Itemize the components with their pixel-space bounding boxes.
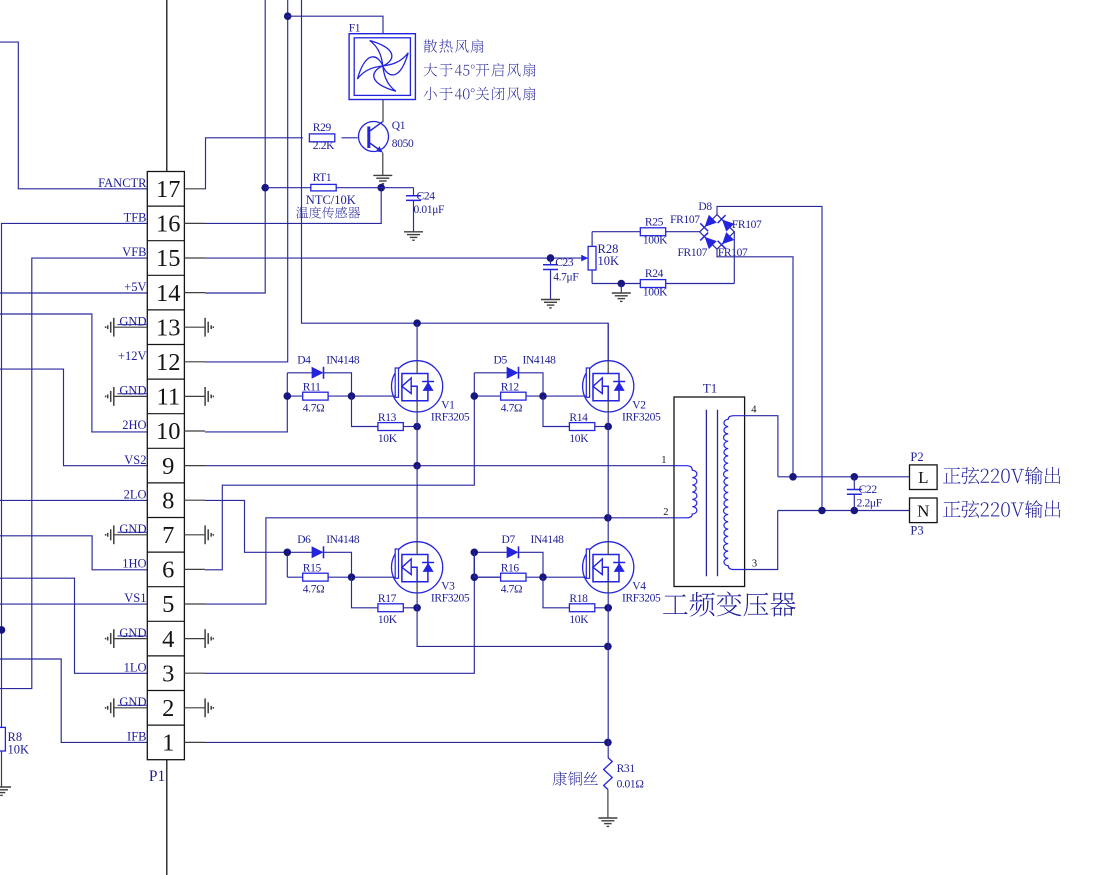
node gate junction D6 — [348, 573, 356, 581]
svg-text:0.01μF: 0.01μF — [414, 204, 445, 216]
svg-text:4.7Ω: 4.7Ω — [501, 402, 523, 414]
wire +5V left — [0, 292, 147, 294]
wire R28 top to D8 left — [592, 231, 700, 233]
ground bar symbol left pin 7 — [114, 534, 147, 536]
svg-text:GND: GND — [119, 384, 146, 398]
svg-text:4: 4 — [751, 405, 757, 416]
ground bar symbol left pin 2 — [114, 707, 147, 709]
svg-text:13: 13 — [156, 314, 181, 341]
wire D7 gate junction to MOSFET gate — [543, 576, 586, 578]
pin divider above pin 12 — [147, 344, 184, 346]
wire T1 pin3 to N row — [745, 511, 778, 570]
svg-text:10K: 10K — [8, 743, 30, 757]
node left junction D7 — [473, 552, 475, 577]
ground C24 — [404, 231, 423, 233]
transistor Q1 — [359, 122, 389, 153]
svg-text:R29: R29 — [313, 122, 332, 134]
svg-text:V4: V4 — [632, 581, 646, 593]
svg-text:4.7Ω: 4.7Ω — [501, 583, 523, 595]
node L row D8 junction — [789, 473, 797, 481]
ground bar symbol left pin 13 — [114, 326, 147, 328]
svg-text:FANCTR: FANCTR — [98, 176, 147, 190]
node VFB-C23 junction — [547, 254, 555, 262]
wire 1LO to V4 gate network — [205, 552, 474, 673]
svg-text:10K: 10K — [569, 433, 589, 445]
diode D6 — [287, 551, 311, 553]
svg-text:R18: R18 — [569, 593, 588, 605]
svg-text:5: 5 — [162, 591, 174, 618]
node V1 source junction — [413, 462, 421, 470]
connector P1 box — [147, 172, 184, 760]
svg-text:10K: 10K — [598, 254, 620, 268]
pin stub right pin 1 — [184, 741, 205, 743]
svg-text:TFB: TFB — [124, 211, 147, 225]
pin stub right pin 16 — [184, 222, 205, 224]
node N row C22 junction — [851, 507, 859, 515]
pin divider above pin 1 — [147, 724, 184, 726]
svg-text:FR107: FR107 — [678, 247, 708, 259]
svg-text:2.2K: 2.2K — [313, 140, 335, 152]
svg-text:1LO: 1LO — [124, 660, 147, 674]
svg-text:D5: D5 — [494, 355, 508, 367]
capacitor C24 — [413, 188, 415, 196]
svg-text:D4: D4 — [297, 355, 311, 367]
wire V2 drain stem — [607, 323, 609, 361]
wire TFB left to R8 — [2, 223, 148, 729]
svg-text:R12: R12 — [501, 382, 520, 394]
svg-text:4.7μF: 4.7μF — [553, 272, 578, 284]
svg-text:L: L — [918, 468, 928, 487]
node bus V1 drain junction — [413, 319, 421, 327]
svg-text:0.01Ω: 0.01Ω — [617, 779, 644, 791]
svg-text:11: 11 — [157, 384, 181, 411]
shunt resistor R31 — [604, 758, 613, 790]
svg-text:1: 1 — [661, 455, 666, 466]
pin stub right pin 3 — [184, 672, 205, 674]
wire IFB row to shunt — [205, 741, 608, 743]
svg-text:8050: 8050 — [392, 138, 414, 150]
wire VFB right — [205, 257, 582, 259]
wire V1 source to VS2 — [416, 412, 418, 466]
ground bar symbol right pin 11 — [184, 395, 205, 397]
node R14 stem junction — [604, 423, 612, 431]
svg-text:V3: V3 — [441, 581, 455, 593]
ground R31 — [598, 817, 617, 819]
svg-text:IN4148: IN4148 — [523, 355, 557, 367]
pin divider above pin 14 — [147, 274, 184, 276]
node R18 stem junction — [604, 604, 612, 612]
svg-text:15: 15 — [156, 245, 181, 272]
wire V3 drain stem — [416, 466, 418, 542]
ground R24 row — [612, 292, 631, 294]
pin divider above pin 5 — [147, 586, 184, 588]
resistor R12 — [474, 395, 543, 397]
svg-text:R14: R14 — [569, 412, 588, 424]
svg-text:IN4148: IN4148 — [531, 534, 565, 546]
thermistor RT1 — [311, 184, 336, 191]
node gate junction D7 — [539, 573, 547, 581]
ground bar symbol right pin 13 — [184, 326, 205, 328]
svg-text:T1: T1 — [703, 381, 717, 396]
svg-text:4: 4 — [162, 626, 174, 653]
pin divider above pin 2 — [147, 690, 184, 692]
svg-text:17: 17 — [156, 176, 181, 203]
svg-text:R25: R25 — [645, 216, 664, 228]
pin stub right pin 12 — [184, 361, 205, 363]
svg-text:14: 14 — [156, 280, 181, 307]
svg-text:8: 8 — [162, 487, 174, 514]
pin divider above pin 4 — [147, 620, 184, 622]
wire D8 bottom to L output — [717, 249, 793, 477]
svg-text:12: 12 — [156, 349, 181, 376]
node source common junction — [604, 643, 612, 651]
svg-text:2.2μF: 2.2μF — [857, 498, 882, 510]
svg-text:100K: 100K — [643, 287, 668, 299]
svg-text:C23: C23 — [555, 257, 574, 269]
resistor R15 — [287, 576, 351, 578]
capacitor C23 — [550, 258, 552, 265]
connector P1 body line top — [166, 0, 168, 172]
wire fan feed — [288, 16, 383, 34]
svg-text:IFB: IFB — [127, 730, 146, 744]
wire L output row — [778, 476, 910, 478]
wire VFB left route — [0, 258, 147, 688]
svg-text:9: 9 — [162, 453, 174, 480]
wire D8 right to R24 — [733, 232, 735, 284]
ground bar symbol right pin 4 — [184, 638, 205, 640]
svg-text:3: 3 — [162, 660, 174, 687]
svg-text:R15: R15 — [303, 563, 322, 575]
pin divider above pin 3 — [147, 655, 184, 657]
pin stub right pin 17 — [184, 188, 205, 190]
svg-text:F1: F1 — [349, 23, 361, 35]
svg-text:RT1: RT1 — [313, 172, 332, 184]
diode D4 — [287, 372, 311, 374]
connector P3 — [910, 498, 938, 523]
svg-text:NTC/10K: NTC/10K — [306, 193, 356, 207]
svg-text:1: 1 — [162, 730, 174, 757]
node TFB-R8 junction — [0, 626, 5, 634]
node left junction D6 — [286, 552, 288, 577]
ground C23 — [541, 299, 560, 301]
svg-text:GND: GND — [119, 314, 146, 328]
mosfet V3 — [392, 542, 443, 593]
pin divider above pin 7 — [147, 517, 184, 519]
wire R31 to ground — [607, 790, 609, 819]
svg-text:R24: R24 — [645, 268, 664, 280]
resistor R13 — [352, 396, 378, 426]
wire V1 drain stem — [416, 323, 418, 361]
svg-text:1HO: 1HO — [122, 557, 146, 571]
svg-text:FR107: FR107 — [732, 219, 762, 231]
mosfet V2 — [583, 361, 634, 412]
pin divider above pin 13 — [147, 309, 184, 311]
resistor R29 — [309, 134, 334, 142]
svg-text:P1: P1 — [149, 768, 165, 785]
wire D6 gate junction to MOSFET gate — [352, 576, 396, 578]
svg-text:GND: GND — [119, 522, 146, 536]
svg-text:2HO: 2HO — [122, 418, 146, 432]
wire D8 top to N output — [717, 206, 822, 510]
wire 1HO to V2 gate network — [205, 396, 474, 570]
resistor R16 — [474, 576, 543, 578]
svg-text:+12V: +12V — [118, 349, 147, 363]
svg-text:IN4148: IN4148 — [326, 534, 360, 546]
resistor R17 — [352, 577, 378, 608]
svg-text:D8: D8 — [698, 201, 712, 213]
wire R24 row — [592, 283, 734, 285]
svg-text:10K: 10K — [569, 614, 589, 626]
wire V4 source to shunt — [607, 593, 609, 758]
mosfet V4 — [583, 542, 634, 593]
wire N output row — [778, 510, 910, 512]
diode D5 — [474, 372, 506, 374]
wire FANCTR net — [0, 42, 147, 189]
ground bar symbol right pin 7 — [184, 534, 205, 536]
wire 2HO left route — [0, 314, 147, 432]
wire V2 source to VS1 — [607, 412, 609, 518]
pin divider above pin 16 — [147, 205, 184, 207]
svg-text:3: 3 — [752, 559, 757, 570]
wire IFB left route — [0, 659, 147, 742]
wire VS2 row to transformer pin 1 — [205, 465, 674, 467]
node IFB shunt junction — [604, 739, 612, 747]
fan annotation text — [424, 39, 484, 52]
ground Q1 — [373, 174, 392, 176]
wire 2LO left — [0, 499, 147, 501]
ground bar symbol left pin 4 — [114, 638, 147, 640]
svg-text:P3: P3 — [910, 524, 923, 538]
pin stub right pin 14 — [184, 292, 205, 294]
resistor R18 — [543, 577, 569, 608]
svg-text:N: N — [917, 501, 929, 520]
svg-text:R16: R16 — [501, 563, 520, 575]
wire RT1 row — [265, 187, 413, 189]
svg-text:FR107: FR107 — [718, 247, 748, 259]
resistor R8 — [0, 727, 5, 751]
svg-text:4.7Ω: 4.7Ω — [303, 402, 325, 414]
svg-text:IRF3205: IRF3205 — [622, 411, 661, 423]
resistor R24 — [640, 280, 665, 288]
wire +12V riser — [205, 0, 288, 362]
svg-text:16: 16 — [156, 211, 181, 238]
wire V4 drain stem — [607, 518, 609, 542]
ground bar symbol right pin 2 — [184, 707, 205, 709]
wire 1LO left route — [0, 578, 147, 673]
svg-text:V2: V2 — [632, 400, 646, 412]
pin divider above pin 15 — [147, 240, 184, 242]
pin divider above pin 8 — [147, 482, 184, 484]
wire D4 gate junction to MOSFET gate — [352, 395, 396, 397]
pin stub right pin 6 — [184, 568, 205, 570]
wire Q1 collector to fan — [382, 100, 384, 123]
ground bar symbol left pin 11 — [114, 395, 147, 397]
label L output chinese — [943, 467, 1060, 485]
svg-text:R13: R13 — [378, 412, 397, 424]
node R24 ground junction — [618, 280, 626, 288]
pin stub right pin 15 — [184, 257, 205, 259]
wire VS1 left — [0, 603, 147, 605]
svg-text:V1: V1 — [441, 400, 455, 412]
svg-text:R11: R11 — [303, 382, 321, 394]
wire D5 gate junction to MOSFET gate — [543, 395, 586, 397]
capacitor C22 — [853, 477, 855, 490]
potentiometer R28 — [581, 255, 588, 262]
svg-text:IRF3205: IRF3205 — [622, 592, 661, 604]
svg-text:R31: R31 — [617, 763, 636, 775]
wire Q1 emitter to ground — [382, 153, 384, 176]
svg-text:GND: GND — [119, 695, 146, 709]
svg-text:6: 6 — [162, 557, 174, 584]
svg-text:2: 2 — [162, 695, 174, 722]
node TFB-RT1 junction — [377, 184, 385, 192]
wire T1 pin4 to L row — [745, 416, 778, 477]
svg-text:VS2: VS2 — [124, 453, 146, 467]
resistor R14 — [543, 396, 569, 426]
diode bridge D8 — [700, 215, 735, 250]
svg-text:7: 7 — [162, 522, 174, 549]
label N output chinese — [943, 500, 1060, 518]
connector P1 body line bottom — [166, 760, 168, 875]
svg-text:Q1: Q1 — [392, 120, 406, 132]
node L row C22 junction — [851, 473, 859, 481]
svg-text:+5V: +5V — [124, 280, 146, 294]
svg-text:R17: R17 — [378, 593, 397, 605]
svg-text:10: 10 — [156, 418, 181, 445]
node R16 junction on 1LO riser — [471, 573, 479, 581]
wire FANCTR to R29 — [205, 138, 303, 189]
node left junction D5 — [473, 373, 475, 396]
node +5V-RT1 junction — [261, 184, 269, 192]
node N row D8 junction — [818, 507, 826, 515]
svg-text:IRF3205: IRF3205 — [431, 411, 470, 423]
wire VS2 left route — [0, 369, 147, 466]
svg-text:FR107: FR107 — [670, 214, 700, 226]
svg-text:IN4148: IN4148 — [326, 355, 360, 367]
wire V3 source to common — [417, 593, 608, 647]
wire drain supply bus — [302, 0, 609, 361]
transformer T1 — [674, 397, 745, 587]
svg-text:100K: 100K — [643, 235, 668, 247]
label transformer chinese — [663, 592, 796, 617]
node gate junction D4 — [348, 392, 356, 400]
svg-text:4.7Ω: 4.7Ω — [303, 583, 325, 595]
wire VS1 to transformer pin 2 — [205, 518, 674, 604]
svg-text:10K: 10K — [378, 614, 398, 626]
node +12V fan tap — [284, 12, 292, 20]
pin divider above pin 11 — [147, 378, 184, 380]
connector P2 — [910, 465, 938, 490]
svg-text:GND: GND — [119, 626, 146, 640]
svg-text:VS1: VS1 — [124, 591, 146, 605]
fan F1 — [349, 34, 415, 100]
svg-text:10K: 10K — [378, 433, 398, 445]
svg-text:2LO: 2LO — [124, 487, 147, 501]
resistor R25 — [640, 228, 665, 236]
node gate junction D5 — [539, 392, 547, 400]
resistor R11 — [287, 395, 351, 397]
diode D7 — [474, 551, 506, 553]
wire TFB right riser — [205, 188, 381, 224]
pin stub right pin 9 — [184, 465, 205, 467]
node R17 stem junction — [413, 604, 421, 612]
pin stub right pin 10 — [184, 430, 205, 432]
node left junction D4 — [286, 373, 288, 396]
pin stub right pin 5 — [184, 603, 205, 605]
node VS1-V4 junction — [604, 514, 612, 522]
pin divider above pin 10 — [147, 413, 184, 415]
wire 2HO to V1 gate network — [205, 396, 287, 432]
ground R8 — [0, 786, 11, 788]
svg-text:D7: D7 — [502, 534, 516, 546]
pin divider above pin 9 — [147, 447, 184, 449]
pin stub right pin 8 — [184, 499, 205, 501]
svg-text:2: 2 — [663, 507, 668, 518]
wire 2LO to V3 gate network — [205, 500, 287, 552]
node R13 stem junction — [413, 423, 421, 431]
pin divider above pin 6 — [147, 551, 184, 553]
mosfet V1 — [392, 361, 443, 412]
svg-text:P2: P2 — [910, 450, 923, 464]
svg-text:D6: D6 — [297, 534, 311, 546]
svg-text:IRF3205: IRF3205 — [431, 592, 470, 604]
wire 1HO left route — [0, 536, 147, 570]
svg-text:C24: C24 — [417, 191, 436, 203]
svg-text:VFB: VFB — [122, 245, 146, 259]
wire +5V riser — [205, 0, 265, 293]
svg-text:C22: C22 — [859, 484, 878, 496]
